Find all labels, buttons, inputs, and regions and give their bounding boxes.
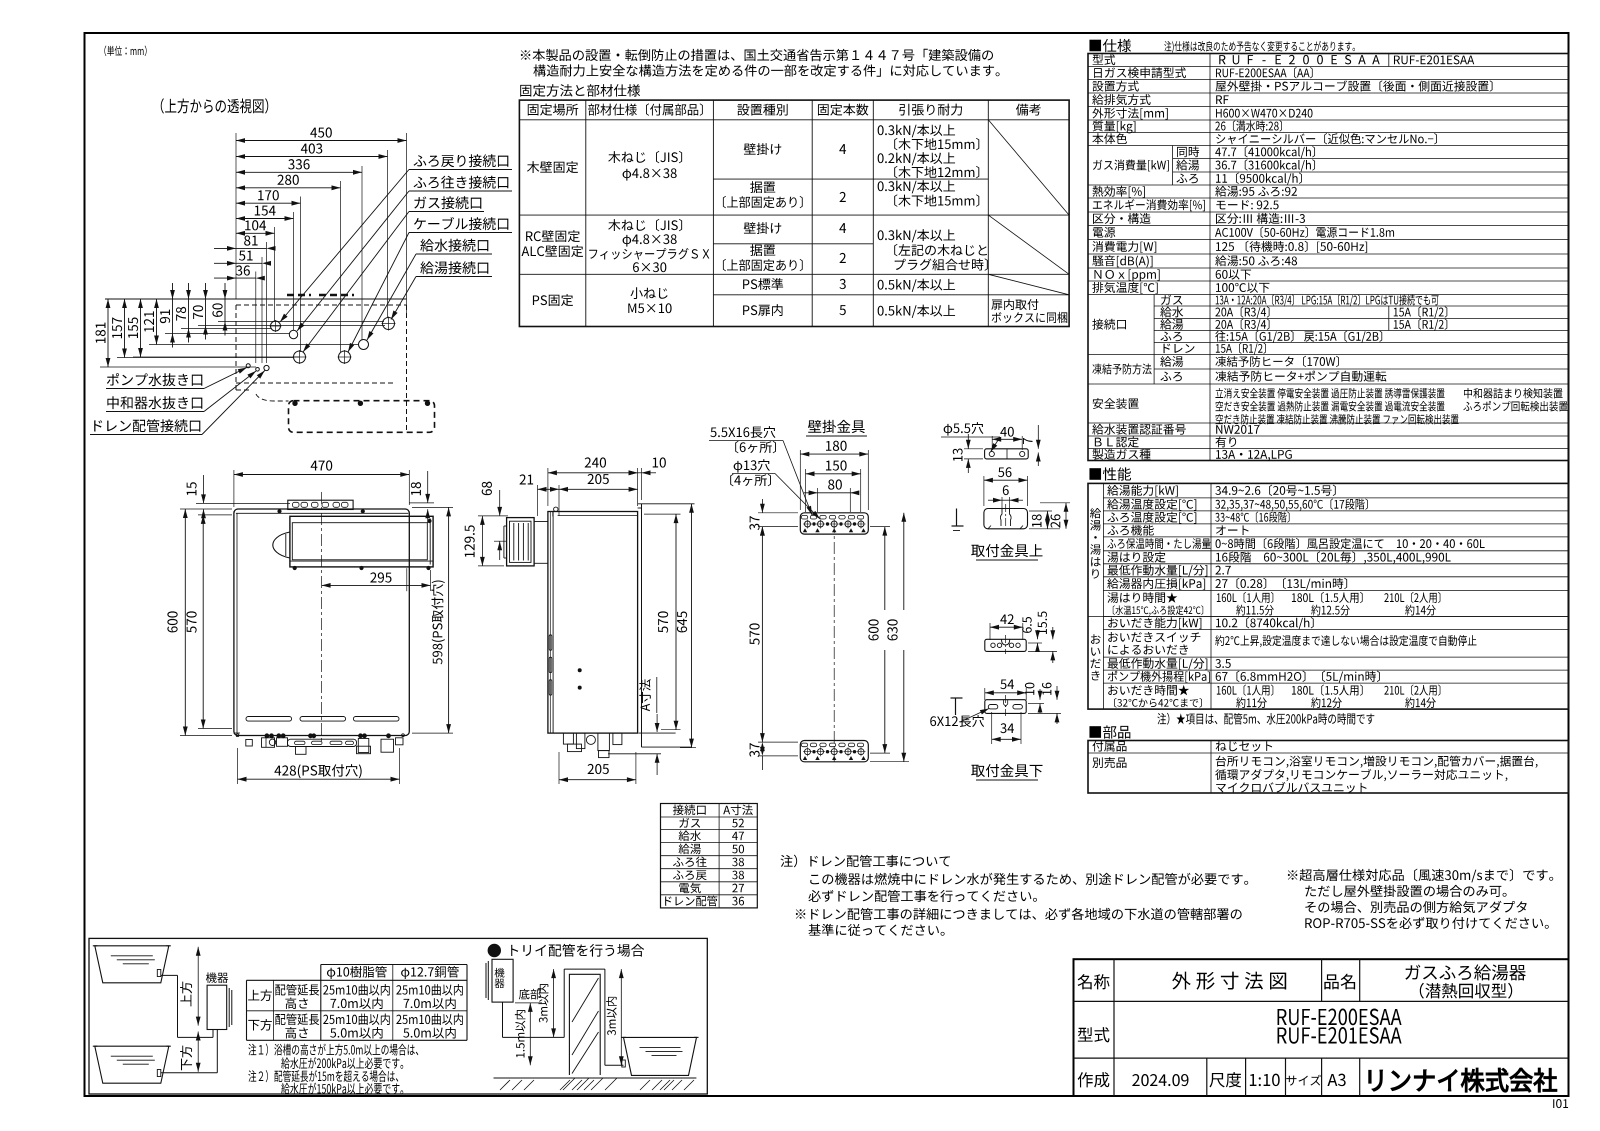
side view bottom fittings xyxy=(563,733,573,744)
perf row pressure-loss xyxy=(1107,578,1205,590)
top dim 450 xyxy=(310,127,332,137)
fixing table grid xyxy=(519,100,1069,326)
spec row outer-dims xyxy=(1092,108,1167,120)
torii unit label xyxy=(495,968,505,978)
label furo-modori xyxy=(414,154,509,167)
top dim 81 xyxy=(244,236,257,246)
front dim 15 xyxy=(187,482,197,495)
torii dim 1.5m xyxy=(515,1010,526,1057)
label gas xyxy=(414,196,481,209)
top view cover mount dots xyxy=(293,401,297,405)
bracket-bottom piece1 xyxy=(985,639,1026,651)
spec row gas-consumption xyxy=(1093,159,1169,171)
piping lower tub outlet xyxy=(157,1070,161,1077)
piping pipes lower xyxy=(161,1072,218,1074)
perf row yuhari-time xyxy=(1107,592,1177,603)
side view body xyxy=(548,512,638,734)
top dim 36 xyxy=(236,265,250,275)
spec row weight xyxy=(1092,120,1135,133)
spec row model xyxy=(1093,54,1116,65)
spec row exhaust-temp xyxy=(1092,282,1157,294)
performance group labels xyxy=(1090,508,1101,519)
top dim 336 xyxy=(288,159,309,169)
top view title xyxy=(161,98,269,113)
spec row gas-types xyxy=(1092,449,1150,460)
piping upper bathtub xyxy=(95,946,169,983)
perf row min-flow1 xyxy=(1108,565,1208,577)
piping dim down xyxy=(180,1046,192,1071)
side view dots xyxy=(578,669,581,672)
spec row body-color xyxy=(1092,133,1127,144)
side dim 645 xyxy=(677,611,687,632)
side view wall line xyxy=(641,504,643,747)
bracket-top upper piece xyxy=(984,509,1028,529)
side dim 570 xyxy=(658,611,668,632)
product fixing note xyxy=(521,49,993,61)
spec row thermal-eff xyxy=(1092,186,1144,198)
front view top screws xyxy=(278,510,281,513)
bracket-top dim 40 xyxy=(1000,427,1014,437)
title block name row xyxy=(1077,974,1109,989)
port drain-pipe xyxy=(264,365,269,370)
rear dim 80 xyxy=(828,479,842,489)
front view exhaust cowl xyxy=(290,516,433,567)
spec row power xyxy=(1093,227,1115,238)
side view port line xyxy=(608,753,661,755)
side dim 129.5 xyxy=(464,525,474,557)
side dim 240 xyxy=(585,457,606,467)
spec row safety xyxy=(1093,398,1139,409)
side view top plate xyxy=(638,503,695,505)
side view bottom step xyxy=(639,732,676,734)
fixing row wood-wall xyxy=(527,161,578,173)
bracket-bottom piece2 xyxy=(985,700,1026,714)
bracket-bottom dim 16 xyxy=(1042,683,1052,695)
fixing row rc-wall xyxy=(526,230,580,242)
front dim 570 xyxy=(186,611,196,632)
front dim 600 xyxy=(167,611,177,632)
spec row noise xyxy=(1092,255,1152,267)
side dim A xyxy=(639,679,651,711)
front dim 295 xyxy=(370,572,391,582)
torii tub outlet xyxy=(622,1060,626,1067)
title block company xyxy=(1369,1068,1557,1092)
piping table grid xyxy=(321,964,467,966)
side view top hook xyxy=(554,507,558,511)
torii bathtub xyxy=(624,1037,697,1075)
top view left vertical dims xyxy=(107,299,109,367)
spec row intake-exhaust xyxy=(1092,94,1150,105)
perf row furo-temp xyxy=(1107,512,1196,524)
side dim 68 xyxy=(482,482,492,496)
front dim 470 xyxy=(311,460,333,470)
label pump-drain xyxy=(107,373,202,386)
port pump-drain xyxy=(246,364,250,368)
spec row gas-exam xyxy=(1094,67,1186,78)
rear dim 600 xyxy=(868,619,878,640)
torii wall hatching below xyxy=(563,1078,575,1090)
side dim 205 bottom xyxy=(588,764,609,774)
front view body outline xyxy=(234,509,409,736)
port cable xyxy=(339,351,351,363)
unit note xyxy=(104,46,146,57)
bottom box frame xyxy=(89,938,707,1094)
bracket-bottom dim 6.5 xyxy=(1022,617,1032,633)
top view wall line xyxy=(105,298,407,300)
bracket-bottom dim 15.5 xyxy=(1038,612,1047,634)
top dim 403 xyxy=(301,143,322,153)
performance note xyxy=(1157,713,1374,725)
high-rise note xyxy=(1288,869,1553,883)
rear view title xyxy=(808,420,865,433)
bracket-bottom caption xyxy=(971,764,1042,777)
front dim 598 xyxy=(431,580,445,664)
perf row hoon xyxy=(1107,538,1210,549)
front view top band xyxy=(236,512,408,514)
port furo-modori xyxy=(271,321,281,331)
bracket-top dim 6 xyxy=(1003,485,1009,495)
port water-in xyxy=(359,340,369,350)
title block date row xyxy=(1078,1072,1110,1087)
label drain-pipe xyxy=(94,419,200,432)
parts table grid xyxy=(1088,741,1569,794)
fixing table heading xyxy=(520,84,640,96)
port hot-water xyxy=(383,318,395,330)
bracket-bottom angle mark xyxy=(955,698,957,715)
bracket-top dim 56 xyxy=(998,467,1011,477)
torii ground line xyxy=(494,1077,697,1079)
piping pipes upper xyxy=(161,974,178,976)
torii title xyxy=(488,944,500,956)
rear top plate xyxy=(800,513,868,534)
bracket-bottom dim 54 xyxy=(1000,680,1014,690)
title block model row xyxy=(1078,1027,1110,1042)
rear dim 630 xyxy=(887,619,897,640)
perf row oidaki-switch xyxy=(1108,632,1200,642)
rear dim 37 top xyxy=(749,516,759,530)
bracket-bottom dim 10 xyxy=(1025,683,1035,695)
bracket-top dim 18 xyxy=(1032,514,1042,527)
fixing row ps xyxy=(533,294,573,306)
rear center line xyxy=(833,521,835,762)
top dim 104 xyxy=(245,220,266,230)
perf row min-flow2 xyxy=(1108,658,1208,670)
top view extension lines vertical xyxy=(235,133,237,299)
rear bottom plate xyxy=(800,741,868,762)
spec row energy-eff xyxy=(1093,199,1205,211)
piping upper tub outlet xyxy=(157,970,161,977)
side view exhaust cowl xyxy=(507,518,534,566)
piping table header xyxy=(327,966,387,979)
side view front face lines xyxy=(552,512,554,734)
top view port extension lines xyxy=(100,366,256,368)
front view bottom fittings xyxy=(234,732,240,734)
label furo-yuki xyxy=(414,176,509,189)
perf row capacity xyxy=(1107,485,1178,497)
piping unit box xyxy=(207,985,227,1029)
side dim A underline xyxy=(656,677,658,713)
top dim 51 xyxy=(239,251,253,261)
bracket-bottom dim 34 xyxy=(1000,723,1014,733)
torii bottom label xyxy=(519,989,541,1000)
bracket-top angle mark xyxy=(956,509,958,527)
top dim 154 xyxy=(255,206,276,216)
perf row pump-head xyxy=(1108,671,1210,683)
spec row power-consumption xyxy=(1092,241,1156,253)
torii dim 3m left xyxy=(538,984,549,1023)
label cable xyxy=(414,217,508,230)
spec row cert xyxy=(1092,424,1186,435)
front view top bracket xyxy=(288,500,353,509)
bracket-top label phi5.5 xyxy=(944,422,984,436)
piping dim up xyxy=(180,982,192,1007)
bracket-bottom dim 42 xyxy=(1000,614,1013,624)
performance table grid xyxy=(1088,483,1569,709)
label water-in xyxy=(420,239,488,252)
performance table title xyxy=(1089,467,1131,480)
front view center line xyxy=(321,492,323,741)
top view unit body dashed outline xyxy=(235,305,237,390)
parts table title xyxy=(1089,725,1130,738)
port gas xyxy=(294,351,306,363)
side dim 21 xyxy=(520,474,534,484)
rear dim 570 xyxy=(749,623,759,644)
port neutralizer-drain xyxy=(256,368,260,372)
perf row oidaki-time xyxy=(1108,685,1189,696)
a-dim table rows xyxy=(673,805,706,816)
torii pipe xyxy=(502,1002,504,1037)
spec row installation xyxy=(1092,81,1138,92)
spec row nox xyxy=(1094,269,1159,281)
spec rows ports xyxy=(1092,319,1126,330)
top dim 280 xyxy=(278,175,299,185)
torii unit box xyxy=(492,959,513,1002)
piping table row down xyxy=(248,1019,272,1031)
front dim 18 xyxy=(411,482,421,495)
fixing table header row xyxy=(528,104,578,116)
rear dim 150 xyxy=(826,460,847,470)
rear dim 37 bottom xyxy=(749,743,759,757)
rear dim 180 xyxy=(826,441,847,451)
top view lower cover dashed outline xyxy=(289,401,435,433)
title block grid xyxy=(1074,959,1569,1096)
bracket-bottom label 6x12 xyxy=(930,715,984,727)
label hot-water xyxy=(420,261,488,274)
label neutralizer-drain xyxy=(107,396,202,409)
torii ground hatching xyxy=(500,1080,510,1090)
spec table grid xyxy=(1088,54,1569,461)
front view left inner edge xyxy=(236,513,238,733)
bracket-top dim 7 xyxy=(1023,438,1032,444)
torii bottom line xyxy=(515,1002,542,1004)
piping lower bathtub xyxy=(95,1046,169,1083)
a-dim table grid xyxy=(661,804,758,908)
top dim 170 xyxy=(258,190,279,200)
bracket-top caption xyxy=(971,544,1042,557)
perf row yuhari-set xyxy=(1107,552,1165,563)
spec table title xyxy=(1089,39,1131,52)
perf row furo-func xyxy=(1107,525,1153,536)
perf row oidaki-capacity xyxy=(1108,617,1201,629)
parts row accessories xyxy=(1092,741,1126,752)
bracket-top dim 13 xyxy=(953,449,963,462)
perf row temp-set xyxy=(1107,499,1196,511)
drain piping note xyxy=(781,855,950,868)
spec rows freeze-protection xyxy=(1092,363,1151,374)
spec row class xyxy=(1093,213,1150,224)
piping notes xyxy=(248,1043,418,1055)
bracket-top small plate xyxy=(985,449,1029,459)
side dim 205 top xyxy=(588,474,609,484)
torii wall xyxy=(569,974,600,1075)
side view face slots xyxy=(549,635,552,651)
piping unit label xyxy=(206,972,228,983)
parts row options xyxy=(1092,757,1126,768)
rear label slots xyxy=(710,426,775,438)
spec row bl xyxy=(1095,436,1139,447)
torii dim 3m right xyxy=(606,997,617,1036)
side dim 10 xyxy=(653,457,666,467)
piping table row up xyxy=(248,990,272,1002)
bracket-top dim 26 xyxy=(1051,514,1061,527)
rear label holes xyxy=(734,459,770,473)
front dim 428 xyxy=(274,764,361,778)
top view wall bracket dashes xyxy=(287,294,311,297)
page number xyxy=(1553,1099,1568,1108)
front view bottom louvers xyxy=(246,717,292,722)
port furo-yuki xyxy=(289,330,297,338)
fixing table remark diagonals xyxy=(988,120,1069,215)
